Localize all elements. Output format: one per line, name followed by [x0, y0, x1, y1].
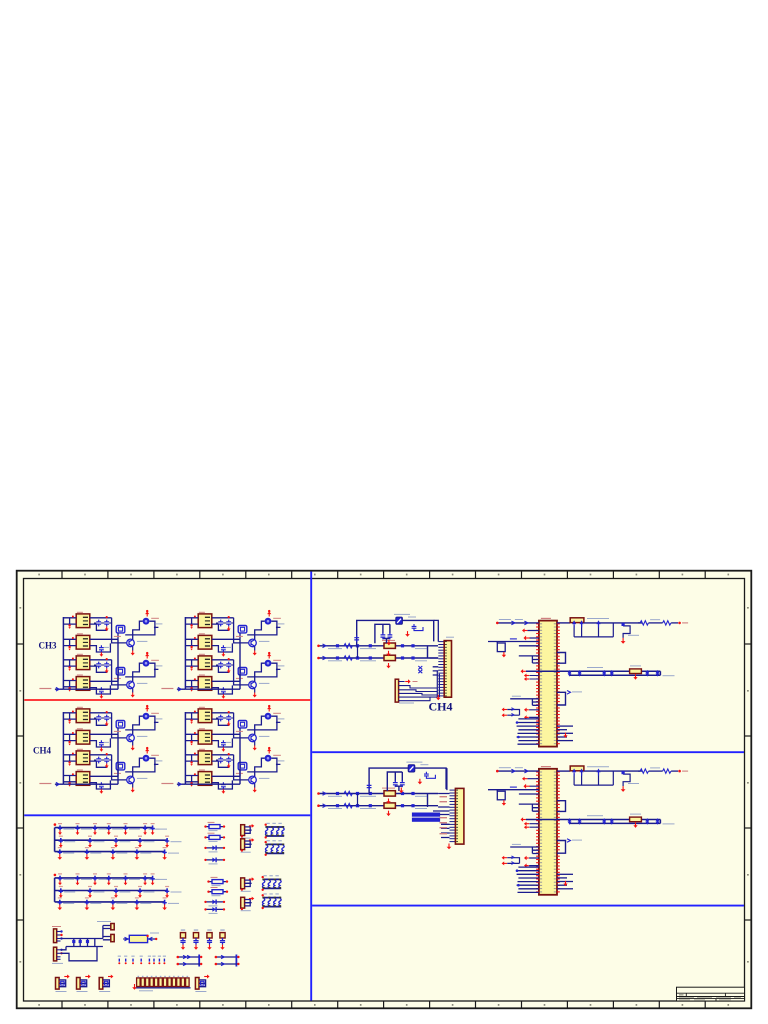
resistor R s2-mid [630, 817, 642, 822]
svg-text:CH4: CH4 [429, 700, 453, 714]
resistor pack RP1 [132, 976, 190, 991]
svg-text:CH4: CH4 [33, 746, 52, 756]
diode D bank2-2 [204, 907, 225, 913]
left bracket stubs s1 [502, 708, 539, 720]
capacitor C bl-2 [193, 929, 198, 949]
title block [677, 987, 745, 1001]
input filter cluster section 2 [317, 762, 446, 816]
resistor R bank1-1 [204, 822, 225, 830]
bottom-right wire stack s2 [557, 874, 573, 889]
capacitor C bl-1 [180, 929, 185, 949]
border reference ticks left [17, 643, 24, 645]
box header J s2 comb [450, 790, 456, 842]
decoupling capacitor bank bank 1 [54, 823, 168, 851]
section divider left horizontal [24, 814, 310, 816]
supply loop s2 [488, 790, 539, 792]
sheet inner border [24, 579, 745, 1002]
optocoupler group CH4-A [39, 705, 162, 794]
capacitor C s1-c [354, 635, 359, 642]
optocoupler group CH3-A [39, 610, 162, 699]
CH3/CH4 red divider [24, 699, 310, 701]
right jog A s1 [557, 653, 566, 664]
ladder jog s1 [623, 623, 630, 638]
capacitor C s2-a [393, 780, 398, 787]
capacitor C bl-4 [220, 929, 225, 949]
section divider vertical [310, 572, 312, 1001]
resistor R s2-1 [384, 791, 395, 796]
voltage reference U s1 [396, 617, 403, 624]
left stub A s2 [519, 793, 539, 795]
net label highlight 2 [412, 818, 440, 822]
resistor R s2-2 [384, 803, 395, 808]
resistor R bank2-2 [207, 888, 228, 896]
box header J s1 [444, 641, 451, 698]
left pin stub wires s1 [527, 631, 539, 639]
capacitor C s1-d [412, 624, 423, 631]
wire mesh bottom-left [61, 926, 111, 961]
border zone labels [38, 574, 40, 576]
capacitor C s1-a [381, 633, 386, 640]
wires to header section 2 [428, 768, 450, 837]
svg-text:CH3: CH3 [39, 641, 58, 651]
ladder jog s2 [623, 771, 630, 786]
right jog A s2 [557, 801, 566, 812]
connector J bl-2 [54, 947, 57, 961]
capacitor C s2-c [367, 783, 372, 790]
connector J bl-8 [195, 975, 209, 992]
fuse F1 [123, 938, 156, 940]
connector J bl-4 [111, 934, 114, 941]
bottom-left wire stack s2 [517, 867, 539, 892]
border reference ticks right [745, 643, 752, 645]
supply loop s1 [488, 642, 539, 644]
header J mid-1 [241, 824, 255, 838]
diode D bank1-2 [204, 858, 225, 864]
section divider right horizontal 2 [312, 905, 744, 907]
decoupling capacitor bank bank 2 [54, 874, 168, 902]
left jog B s1 [510, 699, 539, 706]
top right net wire s2 [638, 768, 688, 773]
ferrite bead L4 [216, 963, 239, 965]
header J s1-b [395, 679, 398, 702]
wires to header section 1 [428, 620, 439, 675]
border reference ticks top [61, 571, 63, 579]
diode D bank2-1 [204, 900, 225, 906]
resistor R s1-mid [630, 669, 642, 674]
right jog B s2 [557, 841, 566, 854]
pin labels J s2 [440, 796, 448, 834]
bottom-right wire stack s1 [557, 726, 573, 741]
connector J bl-7 [99, 975, 113, 992]
right jog B s1 [557, 692, 566, 705]
box header J s2 [455, 788, 464, 844]
resistor R bank2-1 [207, 877, 228, 885]
mid wire pair s2 [526, 819, 661, 821]
capacitor C s2-b [400, 780, 405, 787]
section divider right horizontal 1 [312, 751, 744, 753]
ferrite bead L3 [216, 956, 239, 958]
schematic sheet background [16, 570, 752, 1009]
capacitor C s2-d [424, 772, 435, 779]
top resistor ladder s1 [557, 618, 642, 644]
wire top bus s1 [497, 622, 539, 624]
box header J s1 comb [438, 642, 444, 696]
input filter cluster section 1 [317, 614, 438, 668]
left jog A s1 [519, 656, 539, 663]
resistor network RN mid-1 [265, 823, 285, 839]
capacitor C s1-b [388, 633, 393, 640]
connector J bl-6 [77, 975, 91, 992]
connector J bl-3 [111, 924, 114, 930]
resistor network RN mid-3 [262, 875, 282, 891]
reference section 1 top loop [354, 614, 433, 645]
optocoupler group CH4-B [161, 705, 284, 794]
header J mid-3 [241, 877, 255, 891]
resistor R s1-1 [384, 643, 395, 648]
MCU U s2 [536, 767, 560, 895]
diode D bank1-1 [204, 846, 225, 852]
left bracket stubs s2 [502, 856, 539, 868]
left pin arrows B s2 [529, 824, 539, 828]
testpoint row [118, 959, 120, 962]
top resistor ladder s2 [557, 766, 642, 792]
capacitor C bl-3 [207, 929, 212, 949]
sheet outer border [17, 571, 752, 1009]
connector J bl-5 [56, 975, 70, 992]
left jog B s2 [510, 847, 539, 854]
voltage reference U s2 [408, 765, 415, 772]
top right net wire s1 [638, 620, 688, 625]
border reference ticks bottom [61, 1002, 63, 1009]
wire top bus s2 [497, 770, 539, 772]
bottom-left wire stack s1 [517, 719, 539, 744]
resistor network RN mid-2 [265, 840, 285, 856]
optocoupler group CH3-B [161, 610, 284, 699]
resistor network RN mid-4 [262, 893, 282, 909]
mid wire pair s1 [526, 670, 661, 672]
header J mid-4 [241, 897, 255, 911]
header J mid-2 [241, 838, 255, 852]
resistor R bank1-2 [204, 833, 225, 841]
left pin arrows B s1 [529, 676, 539, 680]
reference section 2 top loop [367, 762, 446, 793]
resistor R s1-2 [384, 655, 395, 660]
left pin stub wires s2 [527, 779, 539, 787]
net label highlight 1 [412, 813, 440, 817]
left jog A s2 [519, 804, 539, 811]
header J s1-b fan wires [399, 682, 438, 701]
left stub A s1 [519, 645, 539, 647]
MCU U s1 [536, 618, 560, 746]
ferrite bead L2 [178, 963, 201, 965]
ferrite bead L1 [178, 956, 201, 958]
connector J bl-1 [54, 929, 57, 943]
